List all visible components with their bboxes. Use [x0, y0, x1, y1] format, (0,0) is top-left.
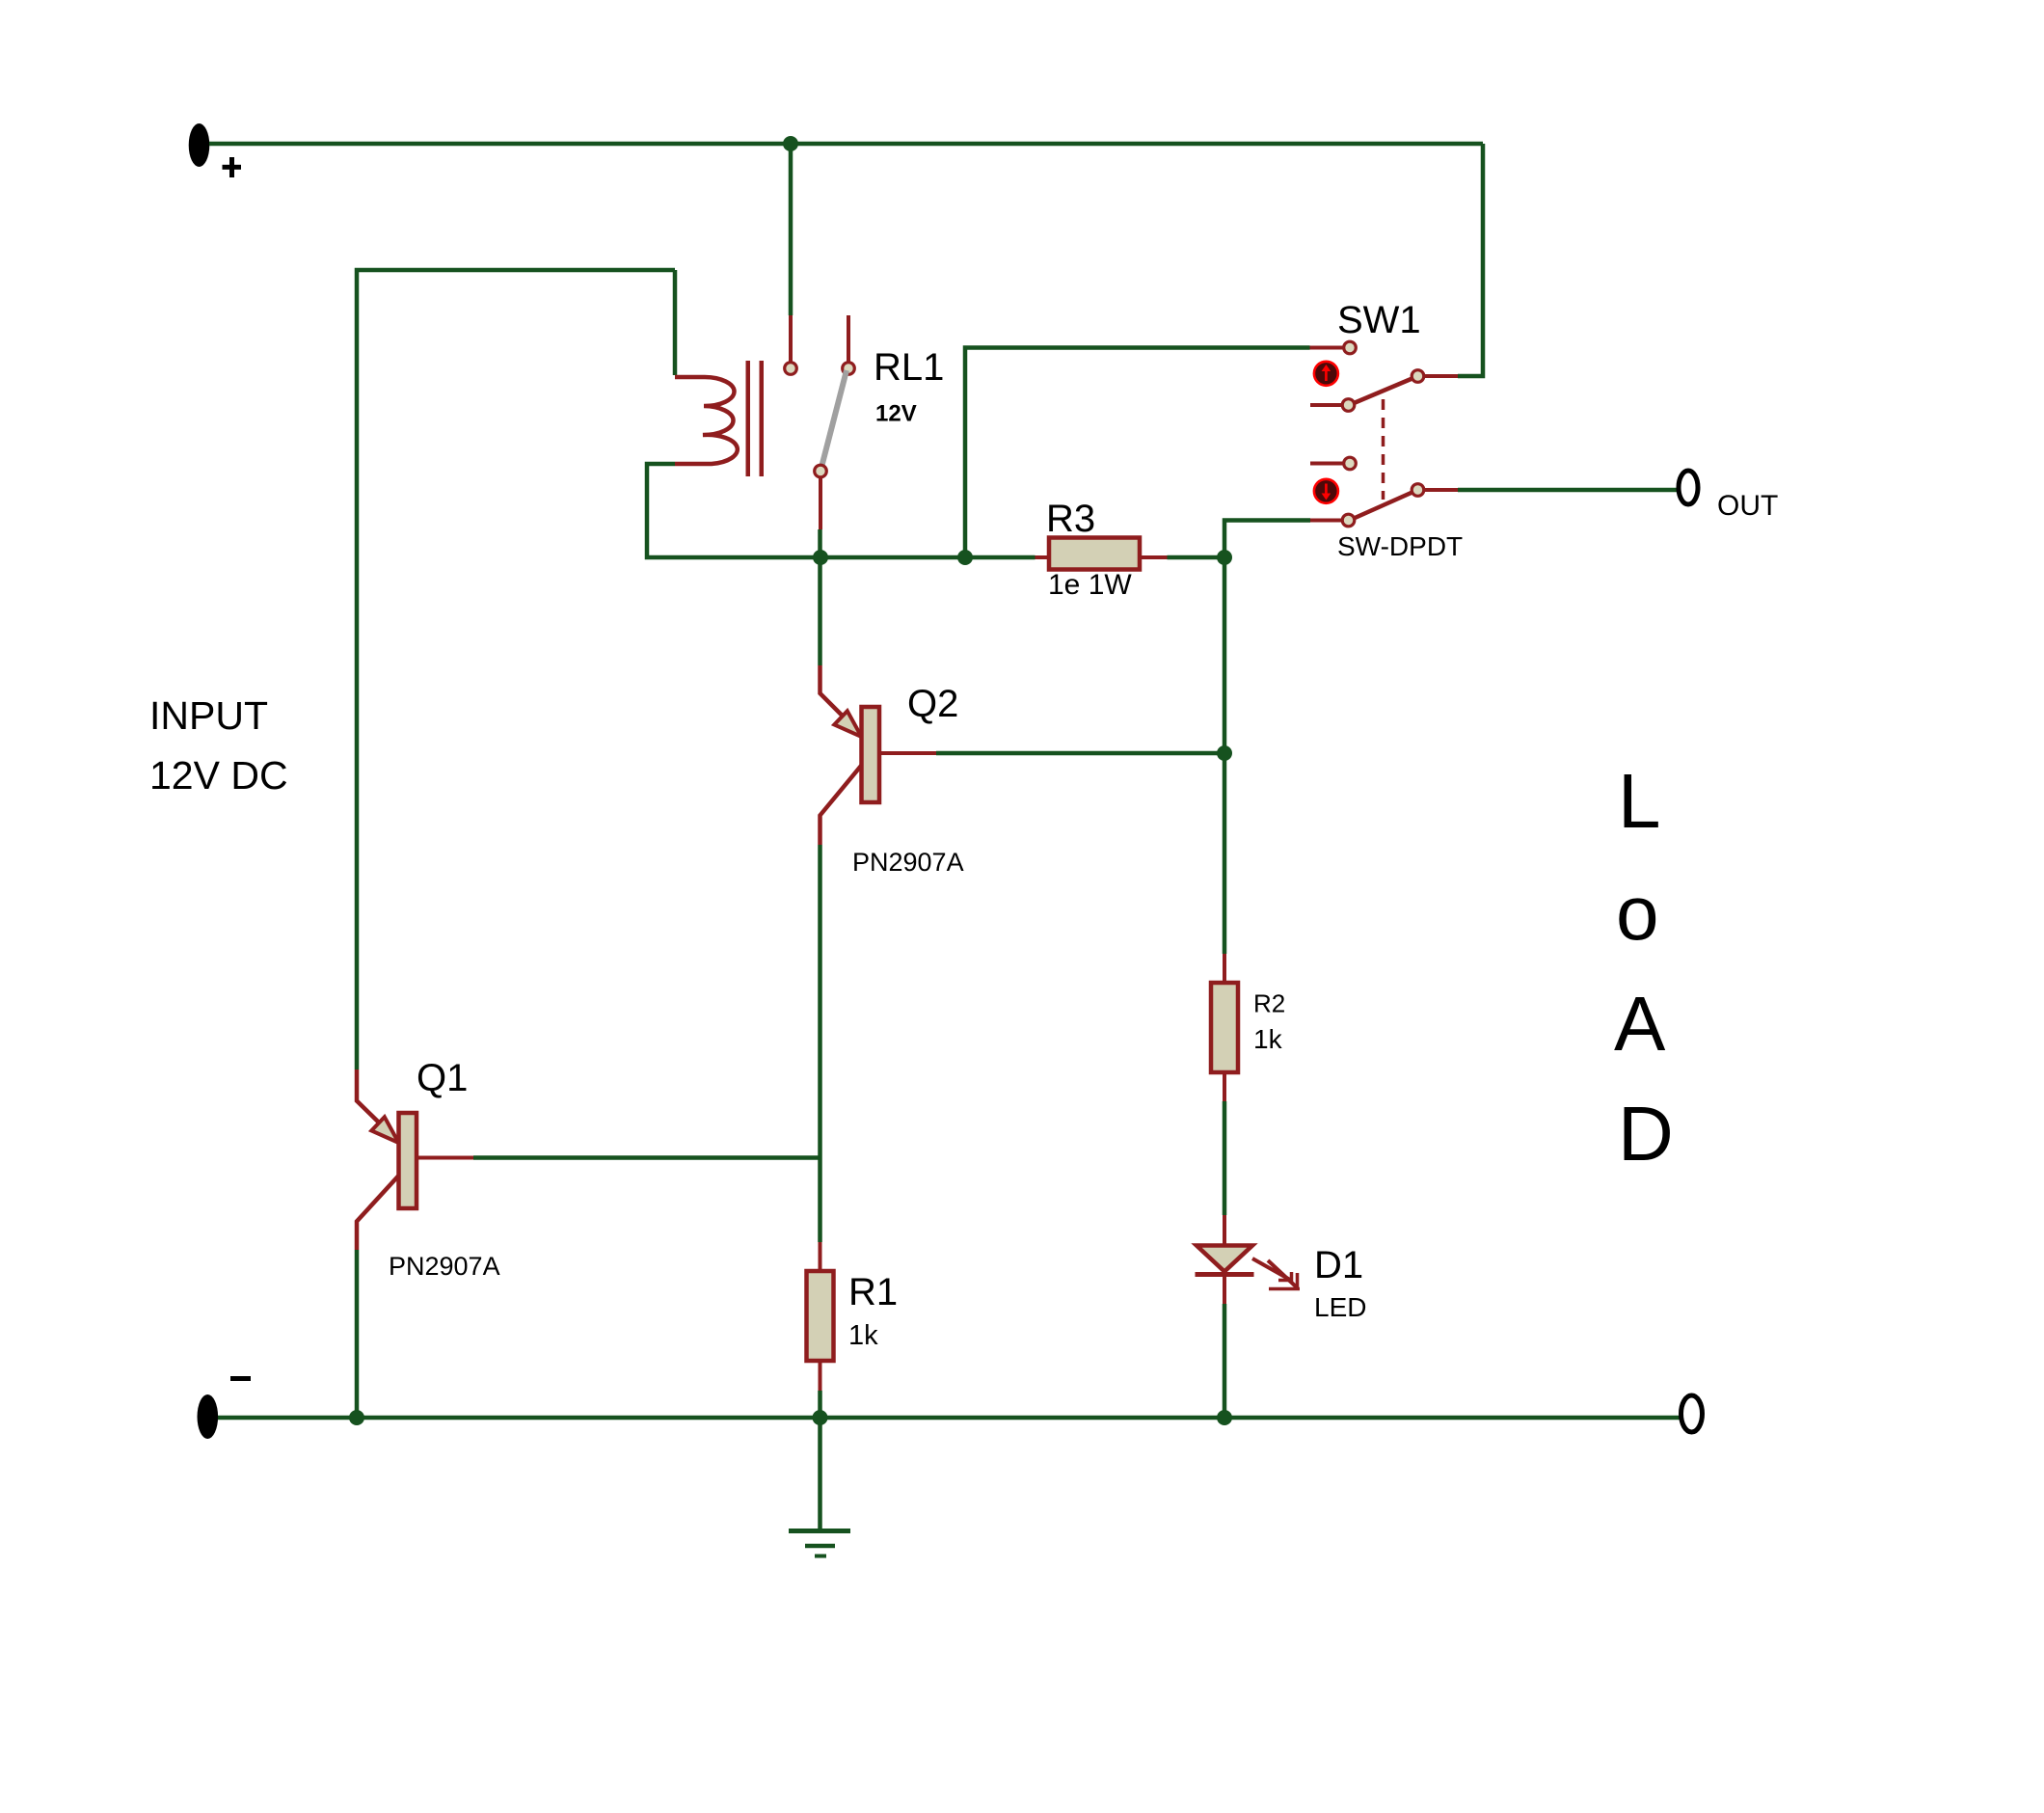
svg-text:OUT: OUT: [1717, 490, 1778, 522]
wire Q1 collector down: [355, 1250, 360, 1418]
wire coil top feed: [673, 270, 678, 375]
wire bottom rail: [218, 1416, 1681, 1421]
junction bottom rail right: [1217, 1410, 1232, 1425]
relay RL1 contact pin stub right (NO): [847, 315, 850, 363]
transistor Q1 emitter arrow: [371, 1117, 398, 1143]
junction bottom rail left: [349, 1410, 364, 1425]
wire R3 right to node: [1168, 555, 1225, 560]
wire SW1 common2 to OUT: [1458, 488, 1679, 493]
wire node to SW1 throw T4: [1224, 521, 1310, 558]
diode D1 LED arrow 1: [1252, 1258, 1293, 1282]
wire node down to R2: [1223, 557, 1227, 954]
label -: [230, 1376, 251, 1381]
svg-text:L: L: [1618, 758, 1661, 844]
switch SW1 pole2 throw T4 stub: [1310, 519, 1342, 523]
wire Q2 base to node: [936, 751, 1224, 756]
wire R1 bottom: [818, 1391, 822, 1418]
transistor Q2 collector lead: [820, 766, 862, 846]
resistor R3 pins: [1035, 555, 1168, 559]
switch SW1 pole2 throw T3 circle: [1344, 457, 1357, 470]
svg-text:Q2: Q2: [907, 683, 958, 725]
diode D1 LED arrow 2: [1268, 1260, 1300, 1289]
switch SW1 indicator up: [1314, 362, 1338, 386]
svg-text:PN2907A: PN2907A: [852, 848, 964, 877]
svg-text:A: A: [1614, 981, 1666, 1067]
junction top rail: [783, 136, 798, 151]
resistor R1 pins: [819, 1242, 822, 1391]
switch SW1 pole1 throw T2 circle: [1342, 399, 1355, 412]
svg-text:1k: 1k: [1253, 1024, 1283, 1054]
relay RL1 common pin stub: [819, 477, 822, 529]
svg-text:R2: R2: [1253, 989, 1285, 1018]
junction bottom rail center: [813, 1410, 828, 1425]
switch SW1 pole2 common circle: [1412, 484, 1424, 497]
svg-text:12V: 12V: [875, 401, 917, 427]
switch SW1 pole2 throw T4 circle: [1342, 514, 1355, 527]
svg-text:SW-DPDT: SW-DPDT: [1337, 531, 1463, 561]
label +: [223, 157, 242, 177]
switch SW1 pole1 common stub: [1424, 374, 1458, 378]
svg-text:LED: LED: [1314, 1292, 1366, 1322]
wire node to SW1 throw T1: [965, 348, 1310, 558]
relay RL1 common pin circle: [815, 465, 827, 477]
terminal bottom right: [1681, 1395, 1703, 1432]
svg-text:PN2907A: PN2907A: [389, 1252, 500, 1281]
wire left branch (Q1 emitter riser): [357, 270, 675, 1069]
junction relay common node: [813, 550, 828, 565]
wire relay common down: [818, 529, 822, 665]
diode D1 cathode pin: [1223, 1275, 1226, 1305]
switch SW1 pole2 lever: [1353, 492, 1414, 520]
diode D1 cathode bar: [1196, 1272, 1254, 1277]
wire R2 bottom to LED: [1223, 1101, 1227, 1215]
switch SW1 pole1 common circle: [1412, 370, 1424, 383]
diode D1 triangle: [1197, 1246, 1252, 1272]
wire top right drop to SW1: [1458, 144, 1483, 376]
svg-text:12V DC: 12V DC: [149, 753, 288, 798]
terminal + (positive input): [189, 123, 210, 167]
resistor R3 body: [1049, 538, 1140, 570]
wire Q1 base: [473, 1155, 820, 1160]
transistor Q1 base lead: [417, 1156, 473, 1160]
transistor Q1 bar: [399, 1113, 417, 1208]
switch SW1 pole2 throw T3 stub: [1310, 462, 1343, 466]
svg-text:o: o: [1616, 870, 1659, 956]
wire ground drop: [818, 1418, 822, 1530]
wire to relay contact: [789, 144, 793, 315]
ground: [789, 1531, 850, 1556]
svg-text:INPUT: INPUT: [149, 693, 268, 738]
switch SW1 pole1 throw T1 circle: [1344, 341, 1357, 354]
resistor R2 body: [1211, 983, 1238, 1072]
transistor Q2 bar: [862, 707, 880, 802]
terminal - (negative input): [198, 1394, 219, 1439]
transistor Q1 collector lead: [357, 1176, 399, 1250]
svg-text:D: D: [1618, 1091, 1674, 1177]
resistor R2 pins: [1223, 954, 1226, 1101]
resistor R1 body: [807, 1271, 834, 1361]
transistor Q2 emitter arrow: [834, 711, 861, 737]
diode D1 anode pin: [1223, 1215, 1226, 1244]
svg-text:R1: R1: [848, 1271, 898, 1313]
terminal OUT: [1679, 471, 1698, 504]
wire top rail: [209, 142, 1483, 147]
relay RL1 core: [746, 361, 765, 476]
switch SW1 pole1 throw T1 stub: [1310, 346, 1344, 350]
switch SW1 mechanical link dashed: [1382, 399, 1385, 500]
relay RL1 lever: [821, 370, 847, 470]
switch SW1 pole1 lever: [1353, 378, 1414, 404]
transistor Q2 base lead: [879, 751, 936, 755]
relay RL1 coil: [675, 377, 738, 464]
junction R3 left node: [957, 550, 973, 565]
junction Q2 base node: [1217, 745, 1232, 761]
svg-text:RL1: RL1: [874, 346, 944, 389]
svg-text:R3: R3: [1046, 498, 1095, 540]
svg-text:SW1: SW1: [1337, 299, 1421, 341]
relay RL1 contact pin stub left: [789, 315, 793, 363]
svg-text:D1: D1: [1314, 1244, 1363, 1286]
wire coil bottom to node row: [647, 464, 1035, 557]
wire Q2 collector down to R1: [818, 845, 822, 1242]
switch SW1 pole2 common stub: [1424, 488, 1458, 492]
junction R3 right node: [1217, 550, 1232, 565]
svg-text:Q1: Q1: [417, 1057, 468, 1099]
relay RL1 pin circle right: [843, 363, 855, 375]
svg-text:1k: 1k: [848, 1320, 878, 1351]
wire LED bottom: [1223, 1304, 1227, 1418]
transistor Q2 emitter lead: [820, 665, 843, 716]
switch SW1 indicator down: [1314, 479, 1338, 503]
transistor Q1 emitter lead: [357, 1069, 379, 1123]
relay RL1 pin circle left: [785, 363, 797, 375]
svg-text:1e 1W: 1e 1W: [1048, 569, 1132, 601]
switch SW1 pole1 throw T2 stub: [1310, 403, 1342, 407]
